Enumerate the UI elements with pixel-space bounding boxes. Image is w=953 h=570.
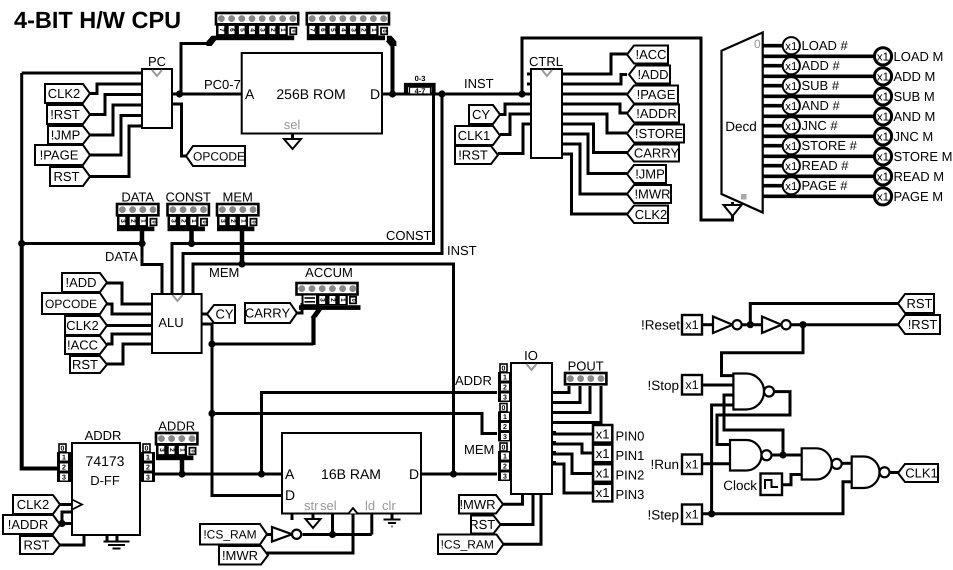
- pin x1 ADD M: [874, 68, 891, 85]
- pin x1 !Run: [682, 455, 702, 475]
- clock source: [761, 474, 783, 496]
- svg-text:x1: x1: [877, 132, 889, 144]
- svg-text:2: 2: [180, 219, 187, 223]
- Decd select triangle: [724, 205, 742, 216]
- tunnel CLK2: [45, 84, 90, 103]
- wire inverter out run: [303, 533, 372, 536]
- svg-text:ADD #: ADD #: [802, 58, 841, 73]
- svg-text:x1: x1: [685, 378, 698, 392]
- wire RAM unconnected pin stub: [312, 514, 315, 520]
- svg-text:D: D: [285, 487, 295, 503]
- pin x1 AND #: [783, 97, 800, 114]
- svg-text:3: 3: [146, 475, 150, 482]
- wire RST to 74173 bottom: [60, 535, 84, 545]
- svg-text:x1: x1: [685, 318, 698, 332]
- svg-text:RST: RST: [469, 517, 495, 532]
- tunnel !PAGE out: [627, 86, 678, 104]
- svg-text:x1: x1: [785, 101, 797, 113]
- svg-text:3: 3: [319, 298, 326, 302]
- wire !ADDR to 74173 en1: [62, 512, 72, 524]
- node result junction bus: [208, 410, 215, 417]
- svg-text:READ #: READ #: [802, 158, 850, 173]
- pin x1 PIN1: [593, 445, 612, 463]
- svg-text:3: 3: [503, 395, 507, 402]
- pin x1 STORE M: [874, 148, 891, 165]
- svg-text:D: D: [409, 466, 419, 482]
- tunnel !CS_RAM: [200, 524, 267, 545]
- wire RST to PC: [90, 126, 142, 177]
- svg-text:!ADDR: !ADDR: [8, 517, 48, 532]
- svg-text:MEM: MEM: [223, 190, 253, 205]
- pin x1 STORE #: [783, 137, 800, 154]
- svg-text:IO: IO: [524, 348, 538, 363]
- svg-text:x1: x1: [785, 121, 797, 133]
- wire CONST from splitter 0-3 down and left: [192, 95, 434, 244]
- svg-text:x1: x1: [785, 41, 797, 53]
- svg-text:!PAGE: !PAGE: [40, 148, 79, 163]
- wire NAND2 feedback to NAND1 in3: [724, 395, 783, 455]
- wire !Run to NAND2 in2: [702, 462, 730, 465]
- tunnel !ADDR out: [627, 105, 679, 123]
- svg-text:0: 0: [350, 299, 356, 302]
- svg-text:7: 7: [218, 28, 225, 32]
- wire !MWR to IO: [503, 494, 523, 504]
- svg-text:x1: x1: [877, 172, 889, 184]
- svg-text:sel: sel: [320, 498, 337, 513]
- wire ADDR up and right to IO group1: [262, 393, 498, 475]
- wire !JMP to PC: [90, 105, 142, 135]
- svg-text:!MWR: !MWR: [634, 187, 670, 202]
- tunnel !CS_RAM io: [438, 535, 504, 555]
- svg-text:SUB #: SUB #: [802, 78, 840, 93]
- wire CTRL out1 to !ACC: [562, 54, 627, 74]
- wire !ADDR in: [60, 523, 62, 526]
- node D junction header2: [389, 90, 396, 97]
- controller CTRL: [531, 69, 562, 158]
- svg-text:2: 2: [503, 424, 507, 431]
- wire 74173 gnd leg2: [116, 535, 119, 542]
- svg-text:2: 2: [503, 464, 507, 471]
- wire CTRL out3 to !PAGE: [562, 93, 627, 96]
- svg-text:3: 3: [259, 28, 266, 32]
- wire ACCUM spine riser: [311, 316, 315, 345]
- tunnel CLK2 74173: [13, 495, 60, 514]
- svg-text:!RST: !RST: [908, 317, 938, 332]
- node CONST junction: [188, 240, 195, 247]
- svg-text:3: 3: [169, 219, 176, 223]
- svg-text:OPCODE: OPCODE: [193, 149, 245, 163]
- svg-text:D: D: [370, 86, 380, 102]
- svg-text:PIN1: PIN1: [616, 448, 645, 463]
- ROM sel triangle: [284, 139, 301, 149]
- tunnel RST tr: [898, 294, 934, 313]
- wire result to RAM D in: [212, 414, 282, 496]
- svg-text:16B RAM: 16B RAM: [321, 466, 381, 482]
- wire POUT leg4: [552, 386, 601, 423]
- io IO: [511, 363, 552, 494]
- pin x1 LOAD #: [783, 37, 800, 54]
- svg-text:2: 2: [168, 448, 175, 452]
- svg-text:5: 5: [238, 28, 245, 32]
- rom U1 256B ROM: [242, 53, 382, 134]
- svg-text:2: 2: [360, 28, 367, 32]
- wire ALU result out: [202, 324, 212, 344]
- svg-text:CARRY: CARRY: [245, 306, 291, 321]
- svg-text:x1: x1: [685, 458, 698, 472]
- inverter !CS_RAM: [272, 527, 292, 542]
- wire CONST header stem: [189, 228, 194, 244]
- wire IO to PIN0: [552, 433, 593, 436]
- svg-text:!STORE: !STORE: [635, 126, 683, 141]
- wire !ADD to ALU: [107, 283, 152, 304]
- svg-text:CONST: CONST: [386, 228, 432, 243]
- svg-text:AND #: AND #: [802, 98, 841, 113]
- wire POUT leg3: [552, 386, 590, 413]
- splitter IO group2 data: [500, 404, 507, 412]
- tunnel !STORE out: [627, 125, 684, 143]
- svg-text:x1: x1: [785, 161, 797, 173]
- wire inverter1 to inverter2: [742, 323, 762, 326]
- svg-text:DATA: DATA: [121, 190, 154, 205]
- wire IO to PIN3: [552, 464, 593, 493]
- svg-text:AND M: AND M: [894, 109, 936, 124]
- tunnel !MWR out: [627, 185, 671, 203]
- svg-text:256B ROM: 256B ROM: [276, 86, 345, 102]
- wire POUT leg2: [552, 386, 580, 403]
- svg-text:2: 2: [269, 28, 276, 32]
- tunnel !ACC out: [627, 46, 668, 64]
- tunnel !RST: [47, 105, 90, 124]
- wire NAND4 out to CLK1: [889, 471, 898, 474]
- svg-text:0: 0: [190, 449, 196, 452]
- wire to RAM ld pin: [370, 514, 373, 535]
- node MEM junction: [238, 260, 245, 267]
- pin x1 LOAD M: [874, 48, 891, 65]
- decoder Decd: [722, 32, 763, 212]
- tunnel !ADD out: [629, 66, 670, 84]
- tunnel !ACC: [65, 336, 107, 354]
- wire DATA header stem: [140, 228, 145, 244]
- tunnel OPCODE alu: [42, 293, 107, 314]
- svg-text:CARRY: CARRY: [634, 146, 680, 161]
- tunnel !MWR ram: [219, 546, 268, 565]
- tunnel CLK1: [455, 126, 500, 145]
- svg-text:PC0-7: PC0-7: [204, 77, 241, 92]
- wire !CS_RAM to inverter: [267, 533, 272, 536]
- svg-text:CLK2: CLK2: [635, 207, 668, 222]
- wire ALU CY out: [202, 313, 207, 316]
- svg-text:!CS_RAM: !CS_RAM: [203, 528, 256, 542]
- svg-text:x1: x1: [877, 52, 889, 64]
- svg-text:ACCUM: ACCUM: [305, 265, 353, 280]
- node DATA junction at header stem: [138, 240, 145, 247]
- 74173 clock input chevron: [72, 500, 82, 510]
- node ADDR header junction: [178, 470, 185, 477]
- node reset chain junction2: [799, 321, 806, 328]
- pin x1 PIN2: [593, 464, 612, 482]
- ACCUM carry leg mark: [303, 295, 318, 306]
- wire PC0-7 up to header1: [180, 44, 212, 95]
- svg-text:ADD M: ADD M: [894, 69, 936, 84]
- svg-text:0: 0: [145, 446, 149, 453]
- node INST junction CTRL riser: [518, 90, 525, 97]
- wire !RST to CTRL: [498, 124, 531, 154]
- Decd enable gray square: [741, 194, 747, 200]
- wire CTRL out7 to !JMP: [562, 134, 627, 174]
- svg-text:1: 1: [178, 448, 185, 452]
- svg-text:CLK2: CLK2: [66, 318, 99, 333]
- wire !ADDR to 74173 en2: [62, 522, 72, 525]
- wire CTRL out2 to !ADD: [562, 75, 627, 85]
- node !Step junction: [708, 510, 715, 517]
- RAM unused input triangle: [306, 519, 321, 528]
- svg-text:0: 0: [754, 37, 761, 51]
- ground RAM clr: [384, 519, 401, 521]
- svg-text:x1: x1: [785, 141, 797, 153]
- svg-text:x1: x1: [877, 72, 889, 84]
- wire CTRL out9 to CLK2: [562, 154, 627, 214]
- svg-text:CY: CY: [472, 107, 490, 122]
- wire RAM D out to MEM node: [421, 473, 454, 476]
- svg-text:1: 1: [146, 455, 150, 462]
- svg-text:!ADD: !ADD: [65, 275, 96, 290]
- splitter IO group3 MEM: [500, 443, 507, 451]
- pin x1 JNC M: [874, 128, 891, 145]
- svg-text:A: A: [245, 86, 255, 102]
- wire CTRL out5 to !STORE: [562, 114, 627, 133]
- svg-text:3: 3: [503, 434, 507, 441]
- ACCUM splitter legs: [317, 295, 348, 306]
- wire NAND2 out to NAND3: [772, 454, 802, 457]
- tunnel CLK2 alu: [65, 316, 107, 335]
- svg-text:ADDR: ADDR: [85, 428, 122, 443]
- pin x1 PAGE #: [783, 177, 800, 194]
- svg-text:PAGE M: PAGE M: [894, 189, 944, 204]
- svg-text:1: 1: [239, 219, 246, 223]
- svg-text:0: 0: [381, 29, 387, 32]
- wire CARRY to ACCUM leg: [297, 303, 302, 313]
- wire result to ACCUM splitter: [212, 343, 314, 346]
- svg-text:3: 3: [503, 474, 507, 481]
- wire CTRL out6 to CARRY: [562, 124, 627, 153]
- wire RAM str marker stub: [291, 514, 294, 521]
- svg-text:2: 2: [129, 219, 136, 223]
- svg-text:!Reset: !Reset: [641, 318, 680, 333]
- svg-text:ALU: ALU: [158, 315, 183, 330]
- svg-text:2: 2: [62, 465, 66, 472]
- svg-text:1: 1: [62, 455, 66, 462]
- svg-text:MEM: MEM: [464, 442, 494, 457]
- svg-text:Decd: Decd: [725, 119, 757, 134]
- svg-text:PIN2: PIN2: [616, 468, 645, 483]
- svg-text:x1: x1: [877, 92, 889, 104]
- svg-text:!Run: !Run: [650, 457, 679, 472]
- wire Clock to NAND3 in2: [783, 475, 802, 485]
- wire CTRL out8 to !MWR: [562, 144, 627, 194]
- svg-text:ADDR: ADDR: [455, 373, 492, 388]
- nand U7: [730, 440, 762, 471]
- splitter INST nibbles 0-3 4-7: [406, 85, 434, 95]
- pin x1 JNC #: [783, 117, 800, 134]
- wire CONST left into ALU: [172, 244, 192, 295]
- svg-text:x1: x1: [877, 192, 889, 204]
- alu ALU: [152, 294, 202, 353]
- svg-text:PC: PC: [148, 54, 166, 69]
- svg-text:x1: x1: [596, 466, 610, 481]
- ram U3 16B RAM: [282, 433, 421, 514]
- nand U6: [733, 374, 764, 410]
- tunnel CY: [207, 305, 235, 323]
- wire !Reset to inverter1: [702, 323, 713, 326]
- ground 74173: [104, 541, 130, 543]
- pin x1 !Step: [682, 505, 702, 525]
- RAM write clock chevron: [349, 508, 358, 514]
- svg-text:ADDR: ADDR: [158, 419, 195, 434]
- svg-text:CLK1: CLK1: [905, 466, 938, 481]
- tunnel OPCODE: [186, 146, 245, 166]
- svg-text:4-7: 4-7: [415, 86, 426, 95]
- node PC0-7 junction: [176, 90, 183, 97]
- wire RAM clr to ground: [391, 514, 394, 520]
- wire CLK1 to CTRL: [500, 114, 531, 135]
- svg-text:CONST: CONST: [165, 190, 211, 205]
- svg-text:!Stop: !Stop: [647, 378, 679, 393]
- node DATA junction left rail: [18, 240, 25, 247]
- svg-text:0: 0: [61, 446, 65, 453]
- svg-text:!JMP: !JMP: [51, 128, 81, 143]
- wire !Stop to NAND1 in2: [702, 384, 733, 387]
- svg-text:0: 0: [251, 220, 257, 223]
- inverter U4: [713, 317, 733, 334]
- svg-text:JNC #: JNC #: [802, 118, 839, 133]
- tunnel CLK1 out: [898, 464, 938, 482]
- wire !CS_RAM to IO: [504, 494, 542, 544]
- register PC: [142, 69, 172, 128]
- wire ADDR header stem: [180, 457, 185, 474]
- svg-text:x1: x1: [596, 426, 610, 441]
- svg-text:3: 3: [350, 28, 357, 32]
- wire MEM header stem: [240, 228, 245, 264]
- pin x1 PIN0: [593, 425, 612, 443]
- svg-text:!Step: !Step: [647, 508, 679, 523]
- pin x1 SUB #: [783, 77, 800, 94]
- svg-text:x1: x1: [596, 485, 610, 500]
- nand U9: [852, 457, 880, 489]
- svg-text:2: 2: [329, 298, 336, 302]
- wire Decd outputs to indicator circles: [763, 44, 783, 48]
- pin x1 READ #: [783, 157, 800, 174]
- tunnel CLK2 out: [627, 206, 668, 224]
- wire ROM sel stub: [291, 134, 294, 140]
- svg-text:x1: x1: [877, 152, 889, 164]
- svg-text:0: 0: [151, 220, 157, 223]
- tunnel !JMP out: [627, 165, 666, 183]
- wire DATA to PC pin0: [22, 72, 142, 75]
- svg-text:x1: x1: [785, 181, 797, 193]
- svg-text:5: 5: [329, 28, 336, 32]
- wire MEM right run down to IO: [242, 264, 497, 474]
- svg-text:Clock: Clock: [723, 478, 757, 493]
- ALU clock chevron: [173, 295, 183, 301]
- svg-text:7: 7: [309, 28, 316, 32]
- svg-text:RST: RST: [72, 357, 98, 372]
- svg-text:CY: CY: [215, 307, 233, 322]
- svg-text:!CS_RAM: !CS_RAM: [441, 538, 494, 552]
- wire header1 spine diagonal: [207, 36, 217, 46]
- svg-text:LOAD #: LOAD #: [802, 38, 849, 53]
- svg-text:3: 3: [62, 475, 66, 482]
- wire POUT leg1: [552, 386, 569, 393]
- tunnel CARRY: [245, 303, 297, 323]
- splitter 74173 input: [59, 444, 66, 452]
- wire !ACC to ALU: [107, 334, 152, 344]
- svg-text:MEM: MEM: [209, 265, 239, 280]
- pin x1 !Stop: [682, 375, 702, 395]
- CTRL clock chevron: [542, 70, 552, 76]
- wire INST to Decd select: [522, 38, 733, 220]
- svg-text:A: A: [285, 466, 295, 482]
- svg-text:6: 6: [228, 28, 235, 32]
- svg-text:READ M: READ M: [894, 169, 945, 184]
- wire to !RST tunnel: [791, 323, 900, 326]
- wire NAND1 out to NAND2 in1: [717, 392, 790, 445]
- wire to RAM sel pin: [331, 514, 334, 535]
- node !ADDR junction: [58, 520, 65, 527]
- wire 74173 gnd leg1: [106, 535, 109, 542]
- ACCUM splitter spine diagonal: [311, 310, 323, 318]
- tunnel RST 74173: [20, 536, 60, 554]
- svg-text:6: 6: [319, 28, 326, 32]
- svg-text:clr: clr: [382, 498, 396, 513]
- wire OPCODE to ALU: [107, 304, 152, 314]
- wire DATA horizontal run: [22, 242, 142, 245]
- wire MEM left into ALU: [193, 264, 242, 294]
- tunnel !JMP: [48, 126, 90, 144]
- svg-text:x1: x1: [785, 81, 797, 93]
- wire PC0-7 PC output to ROM A: [172, 93, 242, 96]
- tunnel !PAGE: [35, 145, 90, 165]
- wire CTRL out4 to !ADDR: [562, 104, 627, 113]
- pin x1 ADD #: [783, 57, 800, 74]
- svg-text:x1: x1: [685, 508, 698, 522]
- splitter IO group1 ADDR: [500, 364, 507, 372]
- svg-text:str: str: [304, 498, 319, 513]
- svg-text:SUB M: SUB M: [894, 89, 935, 104]
- svg-text:PIN0: PIN0: [616, 428, 645, 443]
- wire IO to PIN2: [552, 454, 593, 474]
- tunnel CY ctrl: [469, 105, 500, 124]
- node ADDR junction riser: [258, 470, 265, 477]
- wire RST to ALU: [107, 344, 152, 364]
- wire !Step to NAND1 in4: [712, 405, 734, 514]
- svg-text:1: 1: [503, 375, 507, 382]
- splitter 74173 output: [143, 444, 150, 452]
- PC clock chevron: [152, 70, 162, 76]
- svg-text:0: 0: [502, 445, 506, 452]
- tunnel RST alu: [70, 356, 107, 373]
- wire NAND3 out to NAND4: [842, 462, 852, 465]
- svg-text:0: 0: [502, 405, 506, 412]
- node MEM junction RAM D out: [450, 470, 457, 477]
- tunnel !ADD: [62, 273, 107, 292]
- svg-text:RST: RST: [54, 169, 80, 184]
- svg-text:INST: INST: [464, 76, 494, 91]
- node sel junction: [329, 531, 336, 538]
- probe header PC bits: [216, 13, 298, 24]
- inverter U5: [762, 317, 782, 334]
- wire PC to OPCODE tunnel: [172, 104, 189, 156]
- wire RST to IO: [501, 494, 534, 525]
